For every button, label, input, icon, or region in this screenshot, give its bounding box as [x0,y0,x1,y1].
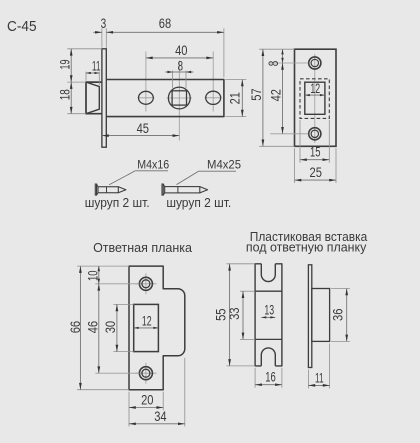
strike latch hole [134,304,159,351]
dimension 68 [223,28,225,77]
svg-text:42: 42 [268,89,283,101]
svg-text:под ответную планку: под ответную планку [246,239,367,254]
latch body [106,80,224,117]
svg-text:M4x16: M4x16 [137,159,169,172]
svg-text:12: 12 [142,315,152,329]
strike screw hole top [145,273,147,294]
svg-text:34: 34 [154,409,166,424]
dimension 11 [85,72,87,81]
svg-text:40: 40 [175,43,187,58]
svg-text:13: 13 [264,304,274,318]
dimension 42 [270,133,308,135]
svg-text:8: 8 [266,60,282,66]
strike screw hole bottom [145,363,147,384]
svg-text:36: 36 [330,309,345,321]
svg-text:45: 45 [137,121,149,136]
svg-text:25: 25 [310,165,322,180]
svg-text:16: 16 [265,369,276,385]
dimension 18 [67,113,86,115]
svg-text:68: 68 [159,16,171,31]
insert top slot [261,264,275,282]
insert bottom arch [261,348,275,366]
dimension 34 [184,358,186,427]
dimension 11 side [307,370,309,389]
dashed latch opening [300,79,329,119]
dimension 33 [240,290,255,292]
svg-text:46: 46 [85,321,100,333]
centerline square hole [178,61,180,141]
dimension 19 [67,48,102,50]
dimension 16 [254,368,256,388]
svg-text:12: 12 [310,82,320,96]
svg-text:30: 30 [103,321,118,333]
dimension 8 spindle [172,71,174,88]
latch hole [305,82,325,114]
svg-text:Ответная планка: Ответная планка [93,240,193,255]
svg-text:M4x25: M4x25 [207,158,241,171]
dimension 45 [102,135,179,137]
svg-text:шуруп 2 шт.: шуруп 2 шт. [166,196,231,210]
dimension 15 [299,120,301,163]
svg-text:8: 8 [178,58,184,74]
svg-text:3: 3 [101,16,107,32]
dimension 55 [227,263,256,265]
svg-text:15: 15 [310,144,321,160]
oval hole [139,91,154,104]
svg-text:шуруп 2 шт.: шуруп 2 шт. [85,196,150,210]
svg-text:57: 57 [249,88,264,100]
dimension 40 [146,57,213,59]
centerline oval hole [145,52,147,112]
insert front outline [255,264,261,366]
dimension 13 [261,316,275,318]
dimension 8 faceplate [270,62,308,64]
svg-text:20: 20 [141,392,153,407]
dimension 3 [101,28,103,48]
dimension 46 [95,372,139,374]
svg-text:21: 21 [227,92,242,104]
dimension 30 [113,303,133,305]
svg-text:11: 11 [315,371,324,386]
dimension 25 [294,148,296,183]
insert side plate [308,265,311,368]
insert section lines [255,290,282,292]
dimension 66 [77,265,129,267]
dimension 36 [331,288,350,290]
right hole [206,91,221,104]
dimension 12 strike [134,327,159,329]
screw hole bottom [309,128,321,140]
svg-text:19: 19 [57,60,72,70]
latch bolt [86,82,102,114]
centerline right hole [212,52,214,112]
dimension 57 [259,48,294,50]
faceplate front outline [295,49,337,146]
faceplate side [102,49,106,147]
svg-text:С-45: С-45 [7,18,37,35]
screw M4x16 [95,184,96,195]
square spindle hole [168,87,190,109]
dimension 12 faceplate [305,94,325,96]
leader M4x16 [109,171,135,185]
dimension 21 [225,79,246,81]
svg-text:18: 18 [57,89,73,100]
svg-text:33: 33 [227,307,242,319]
strike plate outline [129,266,185,390]
dimension 20 [128,392,130,427]
leader M4x25 [177,171,199,184]
svg-text:11: 11 [92,59,101,74]
svg-text:66: 66 [68,321,83,333]
faceplate centerline [314,54,316,143]
dimension 10 [95,283,139,285]
screw hole top [309,57,321,69]
insert side boss [312,289,330,342]
svg-text:10: 10 [84,270,100,281]
screw M4x25 [162,184,163,195]
